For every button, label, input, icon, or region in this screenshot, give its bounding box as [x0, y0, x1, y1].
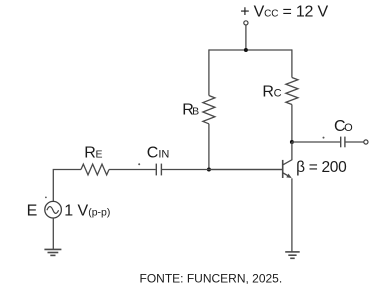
- wire rail to RB: [208, 49, 210, 95]
- wire rail to RC: [291, 49, 293, 77]
- wire input corner to RE: [53, 170, 81, 202]
- wire supply rail: [209, 49, 292, 51]
- junction rail/VCC: [244, 48, 248, 52]
- source E: [45, 201, 62, 218]
- wire base lead: [209, 169, 282, 171]
- wire VCC terminal to rail: [245, 25, 247, 50]
- resistor RC: [286, 78, 298, 105]
- label +VCC = 12 V: [240, 3, 328, 20]
- junction collector node: [290, 140, 294, 144]
- wire collector node to CO: [292, 141, 340, 143]
- wire source to ground: [52, 218, 54, 249]
- capacitor CO: [341, 137, 345, 148]
- node VCC terminal: [244, 21, 248, 25]
- wire RB to base node: [208, 124, 210, 170]
- wire collector lead: [283, 142, 292, 165]
- wire CIN to base: [162, 169, 282, 171]
- svg-text:E: E: [27, 203, 38, 220]
- junction base node: [207, 168, 211, 172]
- transistor Q1 emitter with arrow: [283, 173, 292, 178]
- transistor Q1 base bar: [282, 160, 284, 178]
- capacitor CIN: [156, 164, 161, 176]
- ground right: [285, 252, 300, 258]
- wire emitter to ground: [291, 178, 293, 252]
- wire RE to CIN: [109, 169, 156, 171]
- resistor RE: [81, 164, 109, 175]
- ground left: [44, 249, 61, 255]
- svg-text:+ VCC = 12 V: + VCC = 12 V: [240, 3, 328, 20]
- node marker dot near CIN: [138, 163, 140, 165]
- svg-text:β = 200: β = 200: [296, 159, 347, 176]
- wire RC to collector node: [291, 105, 293, 143]
- node output terminal: [364, 140, 368, 144]
- node marker dot near CO: [323, 137, 325, 139]
- wire CO to output terminal: [346, 141, 364, 143]
- node marker dot near E: [45, 197, 47, 199]
- resistor RB: [203, 96, 215, 124]
- svg-text:FONTE: FUNCERN, 2025.: FONTE: FUNCERN, 2025.: [140, 272, 283, 286]
